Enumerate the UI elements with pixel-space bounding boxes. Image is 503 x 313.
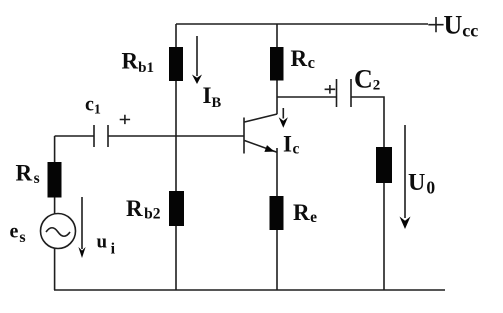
wire Re bottom: [276, 230, 278, 290]
source es: [41, 214, 76, 249]
resistor Re: [270, 196, 284, 230]
svg-text:c1: c1: [85, 94, 101, 118]
resistor Rc: [270, 47, 284, 81]
svg-text:ui: ui: [97, 231, 116, 257]
svg-text:Re: Re: [293, 200, 317, 226]
wire C2 to output branch: [351, 97, 384, 147]
arrow ui: [78, 197, 85, 258]
svg-text:C2: C2: [354, 64, 380, 93]
wire base segment: [108, 135, 244, 137]
wire input left segment: [55, 135, 94, 137]
resistor Rs: [48, 162, 62, 198]
svg-text:Rb2: Rb2: [126, 196, 161, 223]
svg-text:Rc: Rc: [291, 46, 315, 72]
svg-text:U0: U0: [408, 170, 435, 198]
arrow IB: [192, 36, 202, 84]
svg-text:Rb1: Rb1: [122, 49, 154, 76]
wire Rs top: [54, 136, 56, 162]
wire Rb1 bottom to base node: [175, 81, 177, 136]
wire load bottom: [383, 183, 385, 290]
transistor Q1 collector diagonal: [245, 114, 278, 122]
wire Rc bottom / collector: [276, 81, 278, 115]
svg-text:Ic: Ic: [283, 131, 299, 157]
wire Rs to source: [54, 198, 56, 214]
resistor Rb1: [169, 47, 183, 81]
arrow Ic: [279, 108, 288, 128]
label +Ucc: [428, 11, 478, 41]
transistor Q1 emitter diagonal with arrow: [245, 141, 278, 153]
capacitor C2: [337, 79, 352, 107]
capacitor C1: [94, 125, 108, 147]
wire bottom rail: [54, 289, 445, 291]
wire Rb2 bottom: [175, 226, 177, 290]
svg-text:Ucc: Ucc: [444, 11, 479, 41]
resistor Rb2: [169, 191, 184, 226]
wire collector node to C2: [277, 96, 337, 98]
wire Rb1 top: [175, 24, 177, 47]
resistor RL load: [376, 147, 392, 183]
polarity plus of C1: [120, 115, 130, 124]
polarity plus of C2: [325, 85, 336, 94]
wire Rb2 top: [175, 136, 177, 191]
wire top rail +Ucc: [176, 23, 428, 25]
svg-text:es: es: [10, 220, 26, 245]
svg-text:Rs: Rs: [16, 160, 40, 187]
wire Rc top: [276, 24, 278, 47]
transistor Q1 base bar: [243, 118, 245, 154]
arrow U0: [400, 125, 411, 229]
wire source to bottom rail: [54, 248, 56, 290]
svg-text:IB: IB: [203, 83, 222, 111]
wire emitter vertical: [276, 148, 278, 196]
